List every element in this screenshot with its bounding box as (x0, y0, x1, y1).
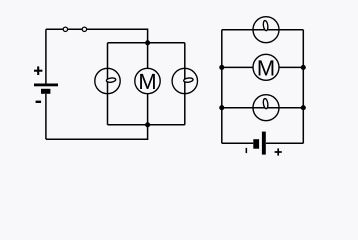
wire: parallel-box top rail (108, 42, 185, 44)
wire: circuit1 left side upper (45, 29, 47, 83)
wire: parallel-box bottom rail (108, 124, 185, 126)
lamp L2 (172, 68, 197, 93)
switch S1 (closed) (63, 27, 86, 31)
lamp L1 (95, 68, 120, 93)
wire: circuit2 middle branch (222, 66, 303, 68)
motor M2 (253, 54, 279, 80)
battery B2 positive plate (262, 132, 266, 155)
junction node: circuit2 bottom-right (301, 105, 306, 110)
wire: circuit1 top wire (46, 29, 148, 43)
junction node: circuit2 bottom-left (219, 105, 224, 110)
label + (battery B2) (275, 148, 282, 155)
battery B1 positive plate (34, 84, 58, 87)
lamp L4 (253, 95, 279, 121)
junction node: circuit2 middle-right (301, 65, 306, 70)
wire: circuit2 right rail (302, 30, 304, 144)
wire: lamp L2 branch (184, 43, 186, 125)
lamp L3 (253, 17, 279, 43)
wire: circuit2 battery to bottom right (266, 142, 303, 144)
label + (battery B1) (34, 66, 42, 75)
junction node: circuit1 top (145, 40, 150, 45)
wire: lamp L1 branch (107, 43, 109, 125)
label - (battery B2, rotated) (246, 148, 248, 153)
wire: circuit2 bottom branch (222, 107, 303, 109)
junction node: circuit1 bottom (145, 122, 150, 127)
wire: circuit2 top branch (222, 29, 303, 31)
battery B2 negative plate (253, 139, 259, 149)
wire: circuit1 left side lower (45, 94, 47, 139)
wire: circuit2 left rail (221, 30, 223, 144)
wire group: circuit 2 (222, 30, 303, 144)
wire: circuit2 bottom left to battery (222, 142, 254, 144)
junction node: circuit2 middle-left (219, 65, 224, 70)
label - (battery B1) (36, 101, 42, 103)
wire: circuit1 bottom wire (46, 125, 148, 139)
motor M1 (135, 68, 160, 93)
battery B1 negative plate (41, 89, 50, 94)
wire: motor M1 branch (147, 43, 149, 125)
wire group: circuit 1 (46, 29, 185, 139)
